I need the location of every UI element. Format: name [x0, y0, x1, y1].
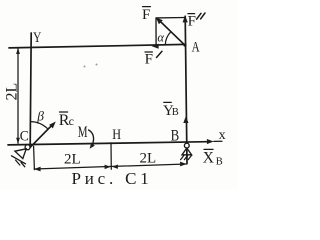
svg-text:C: C [20, 129, 29, 145]
force F label [142, 7, 150, 23]
node A junction dot [183, 44, 186, 47]
svg-text:2L: 2L [64, 152, 81, 168]
dimension extension below C [33, 146, 36, 169]
moment curved arrow [89, 130, 94, 145]
svg-text:F: F [145, 52, 153, 68]
force parallelogram left side [155, 18, 157, 46]
support ground line at C [12, 156, 26, 164]
speck right [96, 64, 98, 66]
svg-text:α: α [157, 31, 164, 45]
angle beta arc [31, 122, 48, 129]
svg-text:x: x [219, 128, 226, 143]
dimension bottom line 2L+2L [34, 164, 186, 169]
support pin at B circle [184, 143, 189, 148]
dimension 2L vertical line left [17, 49, 19, 144]
force parallelogram top side [156, 17, 185, 19]
support triangle at B [182, 148, 192, 155]
svg-text:β: β [36, 109, 44, 124]
svg-text:B: B [172, 107, 179, 118]
svg-text:F: F [142, 7, 150, 23]
wire left vertical member / Y axis [30, 33, 31, 145]
force F'' label [188, 13, 196, 29]
support triangle at C [15, 149, 26, 159]
force RC label [59, 112, 74, 129]
svg-text:c: c [69, 114, 74, 128]
force XB / x axis arrowhead [207, 139, 214, 144]
force YB arrowhead [183, 116, 188, 123]
force F' label [145, 52, 153, 68]
angle alpha arc [165, 32, 171, 45]
wire right vertical member A-B with extension [185, 16, 187, 163]
svg-text:H: H [112, 127, 121, 143]
support hatch at C [16, 160, 20, 165]
force XB label [203, 150, 223, 168]
svg-text:X: X [203, 150, 214, 167]
wire x axis tail past arrow [214, 140, 222, 142]
support ground hatch at B [181, 155, 184, 159]
wire bottom beam / x axis [8, 142, 208, 145]
svg-text:M: M [78, 124, 88, 141]
svg-text:A: A [192, 40, 200, 56]
force F diagonal arrow at A [158, 19, 185, 45]
svg-text:2L: 2L [140, 150, 157, 166]
svg-text:Y: Y [33, 30, 42, 46]
force YB label [163, 103, 179, 119]
speck left [84, 66, 86, 68]
force F' arrowhead (leftward on beam) [152, 44, 159, 49]
svg-text:2L: 2L [4, 83, 21, 101]
wire top beam (member from left column to A) [9, 44, 186, 48]
support pin at C (45 deg) circle [25, 145, 30, 150]
force F'' arrowhead (up at A extension) [183, 16, 188, 23]
dimension extension below H (mid tick) [110, 143, 112, 169]
svg-text:B: B [216, 157, 223, 168]
svg-text:F: F [188, 13, 196, 29]
force RC arrow [30, 124, 53, 147]
svg-text:B: B [171, 127, 180, 144]
svg-text:Рис. С1: Рис. С1 [72, 169, 153, 188]
